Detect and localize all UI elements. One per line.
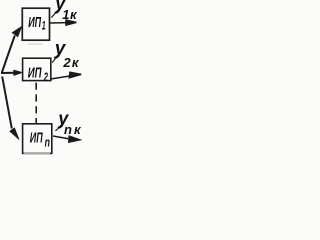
svg-text:2: 2 [43,71,48,84]
svg-text:nк: nк [64,122,83,137]
svg-text:1к: 1к [62,7,78,22]
svg-text:2к: 2к [62,55,79,70]
svg-text:n: n [45,136,51,150]
svg-text:ИП: ИП [28,64,43,81]
svg-text:ИП: ИП [30,129,43,146]
svg-text:ИП: ИП [28,14,41,31]
svg-text:1: 1 [42,20,46,33]
